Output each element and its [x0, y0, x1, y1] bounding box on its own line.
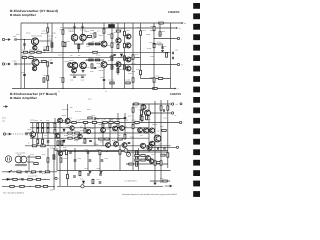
svg-text:D204: D204 [60, 138, 64, 140]
svg-text:0.47u: 0.47u [16, 34, 20, 36]
resistor R261 [160, 161, 162, 165]
wire bottom rail top section [12, 88, 175, 90]
wire mid band vertical x88 [87, 150, 89, 171]
wire x112 drop low [111, 52, 113, 88]
capacitor C201 input [26, 133, 27, 136]
wire ps vert x48 [47, 148, 49, 172]
trimmer VR202 [124, 149, 128, 153]
wire x124 drop [124, 23, 126, 52]
trimmer VR201 [127, 153, 131, 157]
resistor R289 [79, 171, 81, 175]
node ps row3 [29, 186, 30, 187]
node input branch [24, 39, 25, 40]
wire r138 drop [159, 23, 161, 32]
svg-text:R104: R104 [29, 54, 33, 56]
resistor D102 mirror area [126, 82, 130, 84]
svg-text:GND: GND [50, 190, 53, 192]
wire vertical x138.5 low [138, 148, 140, 171]
svg-text:R118: R118 [44, 75, 48, 77]
wire rail C3 y133 [25, 132, 149, 134]
wire TR101 collector right [39, 40, 52, 42]
wire mid band vertical x100 [99, 150, 101, 171]
resistor R295 [161, 154, 165, 156]
svg-text:C212: C212 [85, 149, 89, 151]
svg-text:R202: R202 [63, 147, 67, 149]
diode D201 [82, 181, 84, 183]
wire vertical column x142 [141, 104, 143, 123]
capacitor C123 rail [172, 57, 173, 60]
capacitor C108 [23, 74, 26, 75]
svg-text:TR224: TR224 [58, 132, 63, 134]
resistor R287 [136, 162, 138, 166]
svg-text:C118: C118 [90, 71, 94, 73]
relay RL101 dark blob on rails [108, 24, 115, 28]
transistor TR220 [141, 105, 146, 110]
svg-text:560: 560 [70, 107, 73, 109]
wire vertical x63 [62, 23, 64, 75]
connector arrow rail F [165, 185, 172, 187]
capacitor C211 [99, 182, 102, 183]
page background [0, 0, 200, 200]
svg-text:330: 330 [97, 119, 100, 121]
wire vertical column x149 [148, 104, 150, 152]
transistor TR205 [113, 126, 118, 131]
resistor R273 [10, 185, 14, 187]
resistor R138 [159, 32, 161, 36]
svg-text:RL101: RL101 [116, 28, 120, 30]
transistor TR213 [149, 128, 154, 133]
wire drop x154 [153, 70, 155, 89]
input terminal J201 [3, 133, 5, 135]
resistor R208 on rail D [41, 145, 45, 147]
svg-text:TR108: TR108 [96, 63, 101, 65]
resistor R244 [119, 150, 121, 154]
resistor R226 [68, 137, 72, 139]
capacitor C111 [73, 76, 76, 77]
wire input to TR101 base [17, 39, 31, 41]
svg-text:C121: C121 [175, 50, 179, 52]
svg-text:F201: F201 [19, 173, 22, 175]
wire vertical column x37.8 [37, 123, 39, 146]
resistor R137 [153, 43, 155, 47]
wire rail C2 y127.8 [30, 127, 149, 129]
resistor R293 on x168 [167, 106, 169, 110]
svg-text:C218: C218 [105, 158, 109, 160]
speaker terminal SP+ [179, 121, 181, 123]
svg-text:47: 47 [146, 120, 148, 122]
svg-text:R205: R205 [59, 127, 63, 129]
svg-text:TR208: TR208 [104, 140, 109, 142]
speaker terminal SP- [176, 146, 178, 148]
binding comb tabs right edge [193, 3, 200, 197]
svg-text:Schematic diagram of main ampl: Schematic diagram of main amplifier and … [122, 193, 177, 196]
resistor R119 [111, 43, 113, 47]
svg-text:R135: R135 [143, 30, 147, 32]
svg-text:C206a: C206a [82, 143, 86, 145]
wire pair drop right [82, 23, 84, 34]
svg-text:C119a: C119a [157, 42, 161, 44]
resistor R148 [153, 26, 155, 30]
capacitor C216a [89, 160, 92, 161]
diode D202 [63, 129, 65, 131]
resistor R206 on rail D [32, 145, 36, 147]
node x133 rail A [132, 103, 133, 104]
svg-text:R259: R259 [152, 160, 156, 162]
transistor TR115 [32, 59, 39, 66]
resistor R259 [154, 161, 156, 165]
capacitor C214 [74, 160, 77, 161]
node mid band a [74, 151, 75, 152]
wire drop x24 low [24, 58, 26, 89]
svg-text:R114: R114 [60, 77, 64, 79]
wire x47 drop from top [47, 23, 49, 46]
resistor R142 on bottom rail [153, 88, 157, 90]
svg-text:R139a: R139a [150, 56, 154, 58]
resistor R217b [83, 122, 87, 124]
svg-text:P2: P2 [175, 115, 177, 117]
svg-text:R294: R294 [160, 126, 164, 128]
svg-text:560: 560 [80, 127, 83, 129]
svg-text:R150: R150 [66, 41, 70, 43]
transistor TR208 [106, 143, 111, 148]
wire y147 line [148, 146, 176, 148]
wire vertical column x167.8 [167, 100, 169, 168]
ground rail E right [100, 172, 103, 174]
resistor R204 [61, 141, 63, 145]
resistor R127 [124, 31, 126, 35]
svg-text:R290a: R290a [139, 119, 143, 121]
wire vertical column x155 [154, 123, 156, 184]
wire vertical column x60 [59, 123, 61, 153]
input arrow J201 [6, 133, 11, 135]
resistor R270 [36, 157, 40, 159]
svg-text:C214: C214 [78, 158, 82, 160]
wire pair drop left [74, 23, 76, 34]
svg-text:B Main Amplifier: B Main Amplifier [10, 13, 37, 17]
transistor TR113 [126, 57, 131, 62]
wire ps row2 [2, 178, 50, 180]
fuse F201 [17, 171, 21, 173]
resistor R273b [36, 185, 40, 187]
svg-text:C107 47p: C107 47p [68, 30, 74, 32]
svg-text:R275a: R275a [92, 120, 96, 122]
capacitor C119 [161, 47, 164, 48]
wire left col x60 low [59, 152, 61, 186]
svg-text:R270: R270 [18, 154, 22, 156]
resistor R145 on top rail [159, 22, 163, 24]
svg-text:R136: R136 [136, 69, 140, 71]
svg-text:R137a: R137a [147, 48, 151, 50]
resistor R203 [54, 123, 56, 127]
svg-text:R246: R246 [64, 158, 68, 160]
capacitor C209 [99, 174, 102, 175]
svg-text:C108: C108 [21, 72, 25, 74]
resistor R103 on mid rail [30, 51, 34, 53]
svg-text:R208: R208 [50, 148, 54, 150]
power transistor TR218 [140, 143, 145, 148]
capacitor C113 [81, 76, 84, 77]
svg-text:R203: R203 [52, 123, 56, 125]
svg-text:2SC945: 2SC945 [99, 132, 104, 134]
resistor R102 row2 [22, 57, 26, 59]
resistor R241 [66, 150, 68, 154]
diode D101 [120, 54, 122, 56]
wire x52 drop from top [51, 23, 53, 43]
svg-text:C106: C106 [100, 77, 104, 79]
svg-text:R110: R110 [88, 57, 92, 59]
resistor R222 [68, 132, 72, 134]
capacitor C102 input coupling [15, 63, 16, 66]
resistor R110a [89, 59, 93, 61]
resistor R111 [62, 30, 64, 34]
wire TR201 down [32, 137, 34, 146]
resistor R104 row2 [29, 57, 33, 59]
svg-text:R101: R101 [22, 49, 26, 51]
capacitor C205 [124, 117, 127, 118]
transistor TR222 [150, 141, 155, 146]
svg-text:R127: R127 [127, 30, 131, 32]
resistor R279 [99, 138, 103, 140]
terminal P1 [171, 103, 173, 105]
transistor TR117 [68, 63, 73, 68]
resistor R108 [47, 62, 49, 66]
resistor R286 [136, 156, 138, 160]
wire drop x47 low [47, 66, 49, 88]
power transformer T201 [15, 156, 27, 166]
svg-text:R211: R211 [46, 120, 50, 122]
svg-text:TR108a: TR108a [97, 67, 102, 69]
capacitor C107 top left pair [73, 27, 76, 28]
resistor R263 [167, 153, 169, 157]
resistor R109 [51, 43, 53, 47]
wire vertical column x161 [160, 100, 162, 183]
resistor R117b mirror [111, 56, 113, 60]
svg-text:B+: B+ [184, 22, 186, 25]
wire output line ch1 [154, 38, 177, 40]
resistor row C R277 [109, 122, 113, 124]
resistor R230 [84, 128, 86, 132]
capacitor C103 bias [23, 44, 26, 45]
transistor TR116 [32, 66, 36, 70]
wire y60 link [86, 59, 104, 61]
resistor R234 [141, 116, 143, 120]
wire vertical x67.5 low [67, 152, 69, 186]
svg-text:C211: C211 [97, 179, 101, 181]
resistor R123b mirror [117, 68, 119, 72]
transistor TR110 [116, 62, 121, 67]
wire mid band rail y151.5 [57, 151, 124, 153]
node out bottom [153, 64, 154, 65]
resistor R265 [163, 180, 167, 182]
svg-text:R149a: R149a [90, 30, 94, 32]
svg-text:TR113: TR113 [131, 63, 135, 65]
svg-text:C217: C217 [159, 144, 163, 146]
svg-text:TR215: TR215 [151, 154, 156, 156]
transistor TR106 [80, 62, 87, 69]
resistor R113 [78, 44, 80, 48]
svg-text:C117 100: C117 100 [108, 80, 114, 82]
node branch y44 [153, 43, 154, 44]
ground rail E left [89, 172, 92, 174]
transistor TR207 [138, 128, 143, 133]
resistor R133 [132, 78, 134, 82]
svg-text:R217a: R217a [76, 120, 80, 122]
svg-text:R103: R103 [29, 49, 33, 51]
resistor R118 [47, 76, 49, 80]
svg-text:HM205: HM205 [168, 10, 180, 14]
resistor R228 [75, 137, 79, 139]
svg-text:TR206: TR206 [115, 131, 120, 133]
input terminal J102 [2, 63, 4, 65]
capacitor C218a [101, 160, 104, 161]
capacitor C220a [22, 178, 23, 181]
wire rail C y122.5 [30, 122, 179, 124]
transistor TR201 [30, 132, 36, 138]
resistor R229 [141, 108, 143, 112]
ground under C119 [161, 51, 164, 53]
transistor TR108 [101, 62, 107, 68]
svg-text:C205a: C205a [124, 119, 128, 121]
resistor R237 [135, 159, 139, 161]
svg-text:R242: R242 [97, 149, 101, 151]
svg-text:R226: R226 [72, 135, 76, 137]
wire left border rail [20, 23, 22, 89]
wire vertical column x103 [102, 123, 104, 146]
resistor R121 [116, 30, 120, 32]
wire y181 right [150, 180, 170, 182]
capacitor C105 [43, 49, 46, 50]
transistor TR209 [114, 142, 119, 147]
svg-text:100: 100 [118, 135, 121, 137]
wire y44 link [86, 43, 104, 45]
resistor R231 [132, 124, 134, 128]
resistor R290 [140, 115, 142, 119]
svg-text:R111: R111 [60, 29, 63, 31]
svg-text:D101: D101 [118, 57, 122, 59]
node ps row2 [44, 179, 45, 180]
svg-text:R222: R222 [72, 130, 76, 132]
svg-text:C113a: C113a [128, 73, 132, 75]
resistor R267 [92, 179, 94, 183]
node mid band b [106, 151, 107, 152]
resistor R236 [135, 122, 139, 124]
wire ps vert x54 [53, 148, 55, 190]
svg-text:R255: R255 [19, 178, 23, 180]
svg-text:R131a: R131a [96, 55, 100, 57]
resistor R288 [67, 174, 69, 178]
svg-text:R229: R229 [144, 107, 148, 109]
resistor R107 [47, 46, 49, 50]
wire vertical column x95 [94, 123, 96, 146]
transistor TR104 [80, 34, 87, 41]
wire transformer sec 2 [27, 161, 34, 163]
capacitor C206 [89, 140, 92, 141]
resistor R257 [36, 178, 40, 180]
capacitor C124 [94, 67, 97, 68]
svg-text:R149: R149 [90, 33, 94, 35]
svg-text:TR207: TR207 [123, 127, 128, 129]
svg-text:R136: R136 [136, 57, 140, 59]
wire R109 drop [51, 41, 53, 52]
resistor R232 [84, 139, 86, 143]
svg-text:R251: R251 [42, 173, 46, 175]
pilot lamp PL201 on rail F [81, 185, 84, 188]
wire drop x104 [103, 68, 105, 89]
wire rail D y145.8 [25, 145, 171, 147]
resistor R150 [64, 42, 66, 46]
capacitor C204 [47, 141, 50, 142]
connector arrow bottom rail right end [175, 88, 177, 90]
svg-text:0.47: 0.47 [157, 131, 160, 133]
transistor TR223 low [149, 159, 153, 163]
resistor R249 [31, 171, 35, 173]
wire stage2 column [103, 23, 105, 41]
resistor R274 [20, 185, 24, 187]
svg-text:R141: R141 [156, 76, 160, 78]
svg-text:VR201: VR201 [124, 151, 129, 153]
resistor R291 [146, 115, 148, 119]
resistor R282 x142 col [141, 105, 143, 109]
capacitor C109 top right pair [81, 27, 84, 28]
wire rail A y104 [133, 103, 171, 105]
resistor R114 [62, 78, 64, 82]
input terminal J101 [2, 38, 4, 40]
wire vertical column x118 [117, 113, 119, 146]
svg-text:FIG-7 SM-3300 SCHEMATIC: FIG-7 SM-3300 SCHEMATIC [3, 191, 25, 194]
svg-text:R227: R227 [135, 107, 139, 109]
resistor row C R278 [115, 122, 119, 124]
svg-text:R129 220: R129 220 [124, 60, 130, 62]
AC plug symbol [5, 156, 11, 162]
resistor R233 [135, 155, 139, 157]
resistor R221 [102, 123, 104, 127]
svg-text:E2: E2 [105, 91, 107, 93]
resistor R147 [47, 28, 49, 32]
svg-text:C206: C206 [93, 143, 97, 145]
capacitor C207 [87, 174, 90, 175]
resistor R215 [42, 128, 44, 132]
capacitor C104 [50, 62, 53, 63]
terminal P2 [171, 112, 173, 114]
svg-text:R253: R253 [9, 178, 13, 180]
node bottom rail c [132, 88, 133, 89]
resistor R240 [129, 163, 133, 165]
transistor TR227 [86, 129, 90, 133]
power transistor TR212 [145, 110, 151, 116]
wire x124 low [124, 52, 126, 88]
resistor R106 row2 [42, 61, 46, 63]
wire vertical column x125 [124, 113, 126, 140]
resistor R120 link [93, 51, 97, 53]
transistor TR203 [58, 118, 63, 123]
resistor R213 [37, 128, 39, 132]
resistor R217 [72, 122, 76, 124]
resistor R253 [13, 178, 17, 180]
transistor TR105 [71, 62, 78, 69]
resistor R281 [118, 138, 122, 140]
capacitor C115 [113, 54, 116, 55]
resistor R246 [60, 158, 62, 162]
resistor R294 [162, 130, 166, 132]
wire rail C4 y138.2 [30, 137, 149, 139]
transistor TR202 dark [65, 119, 70, 124]
resistor R112b [95, 43, 99, 45]
svg-text:220: 220 [112, 67, 115, 69]
svg-text:R115a: R115a [107, 34, 111, 36]
svg-text:R137: R137 [150, 42, 154, 44]
wire C103 branch [24, 40, 26, 50]
wire mid right rail y78 [141, 78, 171, 80]
